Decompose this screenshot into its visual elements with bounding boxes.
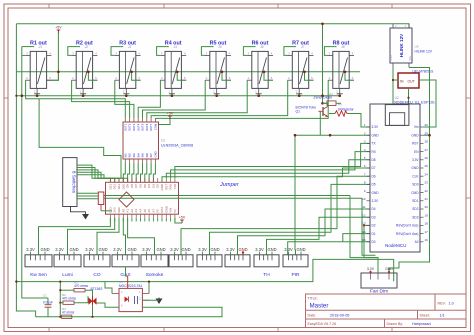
svg-text:470 ohms: 470 ohms: [62, 297, 76, 301]
junction relay J3 common pin: [125, 94, 128, 97]
svg-text:BT136S: BT136S: [91, 287, 104, 291]
wire ULN2003 pin IN4 to header: [136, 163, 138, 183]
svg-text:0.01uF: 0.01uF: [43, 301, 53, 305]
svg-text:15: 15: [362, 238, 366, 242]
wire GND rail to PIR pin: [294, 135, 297, 255]
svg-text:TITLE:: TITLE:: [308, 296, 318, 300]
wire relay J3 +5V drop: [132, 72, 141, 80]
connector P7 aux: [197, 247, 222, 267]
relay J4 (R4 out): [160, 40, 186, 94]
svg-text:D2: D2: [372, 224, 376, 228]
wire relay J3 coil to ULN2003 IN3: [115, 80, 134, 118]
wire snubber top: [60, 289, 74, 291]
junction on D2 wire: [363, 224, 365, 226]
svg-text:J2: J2: [85, 45, 89, 49]
wire relay J1 +5V drop: [51, 72, 58, 80]
svg-text:EN: EN: [414, 150, 419, 154]
wire node down to lower rail: [59, 303, 61, 317]
svg-text:3.3V: 3.3V: [372, 199, 379, 203]
svg-text:GND: GND: [267, 247, 276, 252]
wire top rail drop to zener: [322, 24, 324, 104]
wire NodeMCU TX to header: [175, 143, 370, 178]
svg-text:GND: GND: [238, 247, 247, 252]
junction on +5V bus at relay J7: [303, 71, 306, 74]
wire relay J5 pin3 hook: [201, 47, 213, 56]
relay J1 (R1 out): [25, 40, 51, 94]
svg-text:16: 16: [425, 238, 429, 242]
wire header to connector 1: [39, 218, 111, 255]
wire 8-switch lower pins: [77, 192, 98, 194]
junction relay J6 common pin: [257, 94, 260, 97]
wire ULN2003 pin IN1 to header: [123, 163, 125, 183]
wire NodeMCU D7 to header: [162, 168, 370, 182]
svg-text:CLK: CLK: [412, 174, 419, 178]
junction relay J5 common pin: [215, 94, 218, 97]
svg-text:IN7: IN7: [149, 153, 153, 158]
connector P1 Kw Sen: [25, 247, 52, 278]
svg-text:D4: D4: [372, 207, 376, 211]
svg-text:J8: J8: [341, 45, 345, 49]
resistor R2 470 ohms: [62, 293, 76, 304]
wire relay J7 +5V drop: [305, 72, 314, 80]
wire bottom long rail: [16, 259, 393, 281]
svg-text:SD2: SD2: [412, 207, 418, 211]
svg-text:CO: CO: [93, 272, 100, 278]
wire relay J6 +5V drop: [264, 72, 273, 80]
wire NodeMCU GND to right bus: [424, 134, 430, 136]
junction top rail: [321, 23, 324, 26]
resistor R10 small box left of jumper: [98, 192, 104, 205]
wire ULN2003 pin GND to header: [153, 163, 155, 183]
wire relay coil common rail: [16, 95, 339, 97]
svg-text:GND: GND: [98, 247, 107, 252]
svg-text:OUT: OUT: [408, 80, 415, 84]
power module U5 HLK 12V: [390, 24, 412, 68]
svg-text:HLINK 12V: HLINK 12V: [399, 33, 404, 57]
svg-text:U8 LM7805ES: U8 LM7805ES: [413, 70, 434, 74]
title block: [306, 294, 467, 328]
junction red GND tie at connector 8: [242, 251, 244, 253]
svg-text:D0: D0: [372, 240, 376, 244]
relay J7 (R7 out): [288, 40, 314, 94]
svg-text:22: 22: [425, 189, 429, 193]
junction lower rail: [91, 316, 93, 318]
svg-text:GND: GND: [411, 166, 419, 170]
wire left vertical bus B (from relay J1 pin 3): [22, 47, 48, 298]
junction on +5V bus at relay J5: [221, 71, 224, 74]
regulator U8 LM7805: [398, 73, 419, 88]
svg-text:Vin: Vin: [414, 125, 419, 129]
svg-text:OUT4: OUT4: [136, 123, 140, 131]
wire relay J2 pin3 hook: [68, 47, 80, 56]
svg-text:IN4: IN4: [136, 153, 140, 158]
wire MOC to ground: [142, 299, 159, 301]
svg-text:3.3V: 3.3V: [142, 247, 151, 252]
svg-text:D6: D6: [372, 174, 376, 178]
svg-text:3.3V: 3.3V: [226, 247, 235, 252]
junction relay J2 common pin: [82, 94, 85, 97]
wire MOC pin1 riser to rail: [148, 282, 150, 294]
junction on +5V bus at relay J4: [176, 71, 179, 74]
ground GND1: [82, 213, 89, 220]
svg-text:20: 20: [425, 205, 429, 209]
connector P11 Fan Dim: [361, 267, 397, 288]
wire triac gate to MOC: [97, 303, 120, 307]
wire relay J2 coil to ULN2003 IN2: [72, 80, 130, 118]
wire relay J6 pin3 hook: [243, 47, 255, 56]
svg-text:GND: GND: [127, 247, 136, 252]
junction bottom rail left: [15, 280, 17, 282]
svg-text:GND: GND: [372, 191, 380, 195]
wire relay J3 pin3 hook: [111, 47, 123, 56]
svg-text:17: 17: [425, 230, 429, 234]
svg-text:GND: GND: [69, 247, 78, 252]
wire relay J5 +5V drop: [222, 72, 231, 80]
svg-text:IN: IN: [400, 80, 404, 84]
svg-text:TX0: TX0: [173, 184, 177, 190]
triac Q2 BT136S: [89, 296, 97, 305]
svg-text:D3: D3: [372, 215, 376, 219]
wire NodeMCU D2 to Fan Dim: [364, 225, 378, 273]
wire ULN2003 pin IN7 to header: [149, 163, 151, 183]
svg-text:J3: J3: [128, 45, 132, 49]
connector U6 Jumper header body: [106, 178, 179, 221]
svg-text:3.3V: 3.3V: [284, 247, 293, 252]
svg-text:1/1: 1/1: [440, 314, 445, 318]
svg-text:MOC3021S-TA1: MOC3021S-TA1: [119, 284, 143, 288]
connector P4 GAS: [112, 247, 139, 278]
connector P2 Lumi: [54, 247, 81, 278]
junction on +5V bus at relay J2: [87, 71, 90, 74]
svg-text:14: 14: [362, 230, 366, 234]
wire ULN2003 pin IN3 to header: [132, 163, 134, 183]
svg-text:REV:: REV:: [438, 302, 446, 306]
svg-text:J1: J1: [39, 45, 43, 49]
svg-text:GND: GND: [154, 151, 158, 157]
svg-text:RSV(Don't Use): RSV(Don't Use): [396, 224, 419, 228]
svg-text:SD0: SD0: [412, 183, 418, 187]
svg-text:IN6: IN6: [145, 153, 149, 158]
wire staircase left mid: [39, 99, 121, 178]
connector P5 Somoke: [141, 247, 168, 278]
wire NodeMCU D5 to connector 7: [210, 184, 371, 254]
power +5V flag PWR3: [179, 216, 186, 224]
optocoupler U4 MOC3021S: [112, 288, 149, 311]
svg-text:+5V: +5V: [167, 112, 174, 116]
wire relay J7 pin3 hook: [284, 47, 296, 56]
transistor Q1 BC547B: [318, 106, 328, 117]
svg-text:Hariprasad: Hariprasad: [412, 322, 431, 326]
junction relay J7 common pin: [298, 94, 301, 97]
wire resistor to NodeMCU 3.3V: [347, 114, 370, 128]
svg-text:29: 29: [425, 131, 429, 135]
wire HLK GND down to NodeMCU: [392, 68, 394, 105]
wire header to connector 3: [97, 218, 119, 255]
junction relay J1 common pin: [36, 94, 39, 97]
power +5V flag PWR1: [55, 26, 62, 34]
svg-text:3.3V: 3.3V: [113, 247, 122, 252]
svg-text:27: 27: [425, 148, 429, 152]
wire MOC left top: [105, 282, 112, 294]
svg-text:Q1: Q1: [296, 110, 301, 114]
svg-text:3.3V: 3.3V: [372, 125, 379, 129]
microcontroller U2 NodeMCU body: [370, 104, 420, 252]
relay J8 (R8 out): [328, 40, 354, 94]
wire relay J8 pin3 hook: [324, 47, 336, 56]
wire R3 to triac: [85, 290, 93, 297]
ground GND2: [156, 298, 163, 305]
svg-text:J4: J4: [174, 45, 178, 49]
diamond symbol inside jumper: [119, 192, 134, 207]
svg-text:3.3V: 3.3V: [255, 247, 264, 252]
junction on +5V bus at relay J6: [263, 71, 266, 74]
svg-text:A0: A0: [415, 240, 419, 244]
wire relay J4 pin3 hook: [157, 47, 169, 56]
wire mid rails from 8-switches: [104, 195, 350, 197]
svg-text:J5: J5: [218, 45, 222, 49]
op-amp / driver IC U1 ULN2003A body: [123, 118, 159, 163]
wire relay J1 coil to ULN2003 IN1: [26, 80, 126, 118]
wire relay +5V horizontal bus: [16, 71, 360, 73]
svg-text:OUT2: OUT2: [128, 123, 132, 131]
connector P6 aux: [169, 247, 193, 267]
wire ULN2003 pin IN2 to header: [128, 163, 130, 183]
svg-text:OUT3: OUT3: [132, 123, 136, 131]
svg-text:GND: GND: [181, 247, 190, 252]
wire to ground GND1: [71, 207, 86, 214]
zener diode U3: [323, 101, 342, 106]
svg-text:GND: GND: [156, 247, 165, 252]
wire relay J6 coil to ULN2003 IN6: [147, 80, 247, 118]
svg-text:J6: J6: [260, 45, 264, 49]
svg-text:IN1: IN1: [123, 153, 127, 158]
wire rail drop right: [362, 198, 376, 255]
wire +5V to header pin: [175, 218, 182, 223]
svg-text:OUT5: OUT5: [141, 123, 145, 131]
resistor R3 470 ohms: [74, 281, 88, 292]
wire snubber riser to rail: [59, 282, 61, 291]
wire relay J8 +5V drop: [345, 72, 354, 80]
svg-text:J7: J7: [301, 45, 305, 49]
wire relay J1 pin3 hook: [22, 46, 34, 48]
svg-text:24: 24: [425, 172, 429, 176]
resistor R4 47 ohms: [62, 307, 75, 318]
wire MOC anode red drop: [127, 276, 129, 288]
wire collector to zener node: [323, 103, 329, 106]
connector SW1 "8 Switches": [63, 158, 77, 207]
svg-text:18: 18: [425, 222, 429, 226]
wire NodeMCU RX to header: [171, 152, 370, 179]
svg-text:GND: GND: [390, 55, 393, 61]
svg-text:GND: GND: [40, 247, 49, 252]
wire NodeMCU D8 to header: [166, 160, 370, 178]
svg-text:GND: GND: [372, 133, 380, 137]
junction relay J4 common pin: [171, 94, 174, 97]
svg-text:Drawn By:: Drawn By:: [387, 322, 404, 326]
svg-text:U1: U1: [161, 139, 165, 143]
svg-text:D7: D7: [372, 166, 376, 170]
svg-text:3.3V: 3.3V: [367, 267, 375, 271]
svg-text:3.3V: 3.3V: [85, 247, 94, 252]
svg-text:26: 26: [425, 156, 429, 160]
wire NodeMCU D4 to connector 8: [238, 209, 371, 255]
svg-text:VO+: VO+: [409, 55, 412, 60]
connector P9 TH: [254, 247, 279, 278]
connector P3 CO: [84, 247, 110, 278]
wire tap to 7805 IN: [393, 79, 398, 81]
wire ULN2003 pin IN6 to header: [145, 163, 147, 183]
svg-text:TH: TH: [263, 272, 270, 278]
svg-text:OUT7: OUT7: [149, 123, 153, 131]
relay J5 (R5 out): [205, 40, 231, 94]
power +5V flag PWR2: [167, 112, 174, 120]
wire +5V to relay bus: [47, 33, 59, 80]
wire +5V to ULN COM: [159, 119, 171, 125]
svg-text:Kw Sen: Kw Sen: [30, 272, 47, 278]
relay J3 (R3 out): [115, 40, 141, 94]
wire relay J2 +5V drop: [88, 72, 97, 80]
junction on +5V bus at relay J8: [344, 71, 347, 74]
svg-text:GND: GND: [385, 267, 393, 271]
svg-text:U3: U3: [329, 92, 333, 96]
wire relay J5 coil to ULN2003 IN5: [143, 80, 206, 118]
svg-text:21: 21: [425, 197, 429, 201]
svg-text:RSV(Don't Use): RSV(Don't Use): [396, 232, 419, 236]
svg-text:D1: D1: [372, 232, 376, 236]
svg-text:OUT1: OUT1: [123, 123, 127, 131]
svg-text:GND: GND: [296, 247, 305, 252]
junction on +5V bus at relay J1: [57, 71, 60, 74]
svg-text:8 Switches: 8 Switches: [72, 171, 77, 194]
wire emitter to resistor line: [329, 113, 335, 115]
svg-text:13: 13: [362, 222, 366, 226]
wire relay J7 coil to ULN2003 IN7: [151, 80, 288, 118]
svg-text:Zener Diode: Zener Diode: [314, 95, 333, 99]
svg-text:Master: Master: [310, 303, 329, 310]
svg-text:Jumper: Jumper: [219, 182, 240, 188]
svg-text:GND: GND: [210, 247, 219, 252]
svg-text:NODEMCU_V1_ESP12E: NODEMCU_V1_ESP12E: [394, 100, 435, 104]
svg-text:3.3V: 3.3V: [170, 247, 179, 252]
wire R2 to gate node: [74, 296, 88, 302]
svg-text:+5V: +5V: [55, 26, 62, 30]
svg-text:30: 30: [425, 123, 429, 127]
svg-text:C1: C1: [43, 294, 47, 298]
wire ULN2003 pin IN5 to header: [141, 163, 143, 183]
svg-text:47 ohms: 47 ohms: [62, 311, 75, 315]
svg-text:25: 25: [425, 164, 429, 168]
svg-text:IN2: IN2: [128, 153, 132, 158]
wire header to connector 4: [123, 218, 125, 255]
svg-text:IN3: IN3: [132, 153, 136, 158]
wire 7805 GND down to NodeMCU: [408, 88, 410, 105]
svg-text:470 ohms: 470 ohms: [74, 284, 88, 288]
svg-text:Sheet:: Sheet:: [420, 314, 430, 318]
wire node verticals: [59, 290, 61, 303]
svg-text:3.3V: 3.3V: [55, 247, 64, 252]
wire NodeMCU D6 to connector 6: [181, 176, 370, 255]
svg-text:ULN2003A_C80008: ULN2003A_C80008: [161, 144, 193, 148]
svg-text:28: 28: [425, 140, 429, 144]
svg-text:SD1: SD1: [412, 199, 418, 203]
svg-text:Somoke: Somoke: [146, 272, 164, 278]
svg-text:NodeMCU: NodeMCU: [385, 243, 406, 248]
capacitor C1 0.01uF: [43, 294, 53, 317]
wire GND rail to NodeMCU: [295, 134, 370, 136]
svg-text:EasyEDA V5.7.26: EasyEDA V5.7.26: [308, 322, 337, 326]
svg-text:3.3V: 3.3V: [412, 158, 419, 162]
svg-text:12: 12: [362, 213, 366, 217]
wire NodeMCU D0 to PIR connector: [288, 242, 370, 255]
svg-text:Lumi: Lumi: [62, 272, 72, 278]
NodeMCU pins: [362, 123, 428, 244]
junction relay J8 common pin: [338, 94, 341, 97]
connector P10 PIR: [283, 247, 308, 278]
wire bottom lower rail: [36, 307, 222, 317]
svg-text:23: 23: [425, 181, 429, 185]
wire relay J4 +5V drop: [177, 72, 186, 80]
svg-text:2018-09-05: 2018-09-05: [330, 314, 349, 318]
resistor R9 1K zigzag: [335, 111, 347, 116]
wire base down to GND rail: [319, 111, 321, 135]
title block texts: [308, 296, 454, 326]
svg-text:3.3V: 3.3V: [198, 247, 207, 252]
wire 8-switch outputs to header: [77, 165, 110, 182]
svg-text:1.0: 1.0: [449, 302, 454, 306]
svg-text:19: 19: [425, 213, 429, 217]
svg-text:3.3V: 3.3V: [26, 247, 35, 252]
svg-text:GND: GND: [411, 133, 419, 137]
wire HLK VO+ down right side: [389, 68, 430, 274]
wire relay J4 coil to ULN2003 IN4: [138, 80, 160, 118]
relay J2 (R2 out): [71, 40, 97, 94]
svg-text:1KResistor: 1KResistor: [338, 107, 355, 111]
junction on +5V bus at relay J3: [130, 71, 133, 74]
wire GAS connector to MOC: [126, 267, 128, 276]
wire relay J8 coil to ULN2003 IN7: [155, 80, 328, 118]
wire 7805 OUT down to NodeMCU Vin: [419, 80, 436, 127]
wire triac to bottom rail: [92, 305, 94, 317]
svg-text:HILINK 12V: HILINK 12V: [415, 50, 433, 54]
svg-text:D8: D8: [372, 158, 376, 162]
wire +5V top rail: [16, 23, 393, 25]
svg-text:RST: RST: [412, 142, 418, 146]
svg-text:OUT6: OUT6: [145, 123, 149, 131]
svg-text:R9: R9: [338, 103, 342, 107]
svg-text:U5: U5: [415, 45, 419, 49]
svg-text:SD3: SD3: [412, 215, 418, 219]
connector P8 aux: [225, 247, 250, 267]
svg-text:CMD: CMD: [411, 191, 419, 195]
wire NodeMCU D1 joins D0 line: [343, 234, 370, 242]
svg-text:10: 10: [362, 197, 366, 201]
wire header to connector 5: [128, 218, 155, 255]
wire left vertical bus A: [16, 24, 35, 317]
junction common rail crossing: [321, 94, 324, 97]
wire R2 row: [60, 302, 63, 304]
svg-text:D5: D5: [372, 183, 376, 187]
junction zener node: [321, 102, 324, 105]
svg-text:11: 11: [362, 205, 365, 209]
svg-text:IN5: IN5: [141, 153, 145, 158]
svg-text:COM: COM: [154, 123, 158, 130]
svg-text:5V: 5V: [173, 209, 177, 213]
relay J6 (R6 out): [247, 40, 273, 94]
svg-text:+5V: +5V: [179, 216, 186, 220]
svg-text:PIR: PIR: [292, 272, 301, 278]
wire NodeMCU D3 to TH connector: [267, 217, 371, 255]
wire rail to Fan Dim center: [350, 196, 378, 274]
